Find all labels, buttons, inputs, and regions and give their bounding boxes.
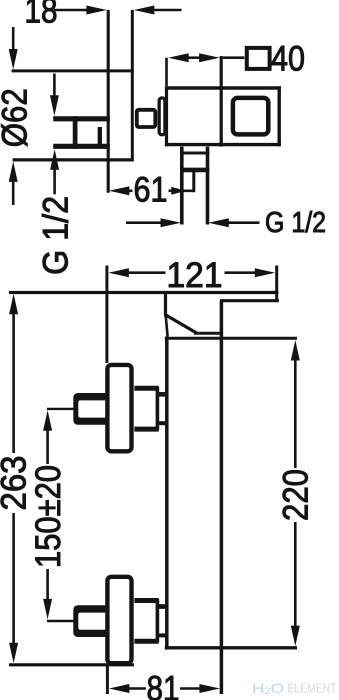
inlet fitting bottom arm <box>53 144 110 149</box>
upper connector bottom lip <box>134 427 158 432</box>
handle stem bar <box>159 98 165 135</box>
spout front: left sliver edge <box>166 315 168 336</box>
svg-text:61: 61 <box>134 171 168 210</box>
inlet fitting top arm <box>53 116 110 121</box>
spout pipe left edge + G1/2 extension <box>180 147 184 225</box>
dimension Ø62 bottom arrow <box>9 161 18 182</box>
dimension 40 left extension <box>165 58 168 86</box>
dimension 61 line <box>109 186 129 195</box>
dimension 81 line <box>109 684 129 693</box>
upper connection center line <box>47 408 75 410</box>
dimension 121 right extension / spout right edge <box>275 266 278 303</box>
dimension 18 leader right <box>152 9 182 12</box>
inlet fitting stub <box>98 127 102 146</box>
spout pipe end cap <box>180 168 209 173</box>
dimension 263 line top <box>9 294 18 315</box>
dimension 121 left extension <box>105 266 108 364</box>
body front: top edge / 220 top extension <box>165 337 297 340</box>
G 1/2 inlet callout down arrow <box>53 74 56 104</box>
dimension 150±20 line top <box>43 410 52 431</box>
upper connector tube edge <box>156 387 160 430</box>
lower escutcheon disc <box>107 577 131 663</box>
lower connector stubs <box>157 604 165 609</box>
inlet fitting mid vertical <box>73 116 78 149</box>
lower hex nut <box>73 605 106 637</box>
G 1/2 outlet leader left <box>126 221 164 224</box>
lower connector top lip <box>134 598 158 603</box>
body front rounded square <box>233 98 268 134</box>
svg-text:40: 40 <box>271 40 305 79</box>
spout front: left vertical <box>164 293 167 317</box>
wire escutcheon plate top edge / Ø62 top extension <box>12 69 134 72</box>
body front: bottom edge / 220 bottom extension <box>165 646 297 649</box>
dimension 150±20 line bottom <box>46 569 49 603</box>
logo H2O ELEMENT <box>252 680 337 696</box>
wire wall line (back of escutcheon, ext line for 18 and 61) <box>107 10 110 193</box>
spout pipe center extension for 61 <box>192 172 195 192</box>
G 1/2 inlet callout up arrow <box>50 149 59 170</box>
dimension 40 line with arrows <box>168 53 189 62</box>
lower connector tube edge <box>156 599 160 642</box>
dimension 18 leader left <box>54 9 88 12</box>
dimension 81 left extension <box>106 666 109 695</box>
svg-text:121: 121 <box>167 256 223 295</box>
svg-text:Ø62: Ø62 <box>0 88 35 147</box>
body front: left edge <box>165 337 169 650</box>
handle square piece <box>137 110 156 127</box>
square symbol for 40 <box>247 48 270 69</box>
spout front: diagonal underside <box>165 315 197 334</box>
lower connector bottom lip <box>134 639 158 644</box>
spout front: lower step to right <box>220 299 279 302</box>
svg-text:81: 81 <box>147 670 180 700</box>
svg-text:18: 18 <box>25 0 58 31</box>
G 1/2 outlet leader right <box>208 218 229 227</box>
wall line front view <box>9 291 278 294</box>
upper escutcheon disc <box>107 365 131 451</box>
dimension 121 line <box>108 268 128 277</box>
lower connection center line <box>47 620 75 622</box>
dimension Ø62 top arrow <box>12 27 15 60</box>
upper hex nut <box>73 393 106 425</box>
dimension 263 bottom extension <box>9 663 134 666</box>
wire escutcheon front line (ext line for 18) <box>131 10 134 159</box>
body division line / 40 right extension <box>220 56 223 147</box>
wire escutcheon plate bottom edge / Ø62 bottom extension <box>13 158 134 161</box>
upper connector stubs <box>157 392 165 397</box>
svg-text:ELEMENT: ELEMENT <box>288 682 337 696</box>
spout pipe right edge + G1/2 extension <box>206 147 210 225</box>
spout front: underside horizontal <box>194 332 223 335</box>
dimension 220 line <box>291 340 300 361</box>
body front: right edge + 81 extension <box>220 301 224 694</box>
spout pipe divider <box>180 152 209 155</box>
upper connector top lip <box>134 386 158 391</box>
svg-text:G 1/2: G 1/2 <box>265 207 326 239</box>
dimension 263 line bottom <box>12 513 15 645</box>
body (side view) outline <box>165 86 281 89</box>
svg-text:220: 220 <box>276 469 315 521</box>
svg-text:G 1/2: G 1/2 <box>36 196 75 275</box>
svg-text:150±20: 150±20 <box>29 465 68 568</box>
